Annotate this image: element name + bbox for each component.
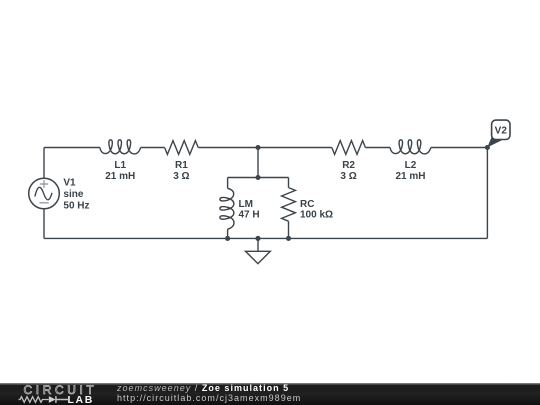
- V1 plus sign: [39, 180, 48, 203]
- wire: R1 to R2 across centre node: [198, 147, 332, 149]
- svg-text:3 Ω: 3 Ω: [340, 171, 356, 182]
- svg-text:21 mH: 21 mH: [105, 171, 135, 182]
- V2 flag box: [492, 120, 510, 139]
- wire: between L1 and R1: [141, 147, 165, 149]
- svg-text:50 Hz: 50 Hz: [63, 201, 89, 212]
- svg-text:R2: R2: [342, 160, 355, 171]
- voltage source V1 sine wave: [35, 187, 52, 200]
- node: ground junction on bottom rail: [255, 236, 260, 241]
- svg-text:LAB: LAB: [68, 394, 94, 405]
- wire: centre node drop from top rail: [257, 148, 259, 178]
- logo diode symbol: [49, 396, 56, 403]
- wire: RC branch bottom lead: [288, 221, 290, 238]
- credit text: [117, 384, 301, 403]
- wire: right vertical (V2 node down to bottom rail): [486, 148, 488, 239]
- svg-text:21 mH: 21 mH: [395, 171, 425, 182]
- svg-text:3 Ω: 3 Ω: [173, 171, 189, 182]
- svg-text:R1: R1: [175, 160, 188, 171]
- node: RC bottom on bottom rail: [286, 236, 291, 241]
- inductor L1 (21 mH) coil: [100, 140, 141, 154]
- wire: top rail from left corner to L1: [44, 147, 100, 149]
- resistor R2 (3 ohm) zigzag: [332, 141, 366, 155]
- svg-text:L1: L1: [114, 160, 126, 171]
- node: centre of top rail: [255, 145, 260, 150]
- node: V2 probe point: [485, 145, 490, 150]
- V2 flag pointer wedge: [487, 137, 502, 148]
- inductor L2 (21 mH) coil: [390, 140, 431, 154]
- wire: ground stub: [257, 238, 259, 250]
- footer bar: [0, 383, 540, 405]
- wire: left vertical top (V1 plus terminal to top-left corner): [43, 148, 45, 179]
- wire: LM branch top lead: [227, 178, 229, 189]
- logo resistor zigzag: [19, 397, 49, 403]
- svg-text:RC: RC: [300, 199, 314, 210]
- wire: LM branch bottom lead: [227, 229, 229, 238]
- V1 minus sign: [39, 202, 48, 204]
- wire: RC branch top lead: [288, 178, 290, 188]
- svg-text:LM: LM: [239, 199, 253, 210]
- inductor LM (47 H) vertical coil: [220, 189, 234, 230]
- svg-text:V2: V2: [495, 126, 508, 137]
- voltage source V1 circle: [29, 178, 60, 209]
- svg-text:47 H: 47 H: [239, 210, 260, 221]
- resistor RC (100 kohm) vertical zigzag: [282, 188, 296, 222]
- svg-text:sine: sine: [63, 189, 83, 200]
- wire: between R2 and L2: [365, 147, 390, 149]
- CircuitLab logo: [0, 383, 110, 405]
- svg-text:L2: L2: [405, 160, 417, 171]
- wire: bottom rail: [44, 237, 487, 239]
- svg-text:V1: V1: [63, 178, 76, 189]
- node: LM bottom on bottom rail: [225, 236, 230, 241]
- resistor R1 (3 ohm) zigzag: [165, 141, 199, 155]
- svg-text:100 kΩ: 100 kΩ: [300, 210, 333, 221]
- wire: L2 to top-right corner: [431, 147, 488, 149]
- wire: horizontal bar joining LM and RC branches: [228, 177, 289, 179]
- wire: left vertical bottom (V1 minus terminal to bottom-left corner): [43, 209, 45, 239]
- node: T junction of LM/RC bar: [255, 175, 260, 180]
- ground symbol: [246, 251, 271, 263]
